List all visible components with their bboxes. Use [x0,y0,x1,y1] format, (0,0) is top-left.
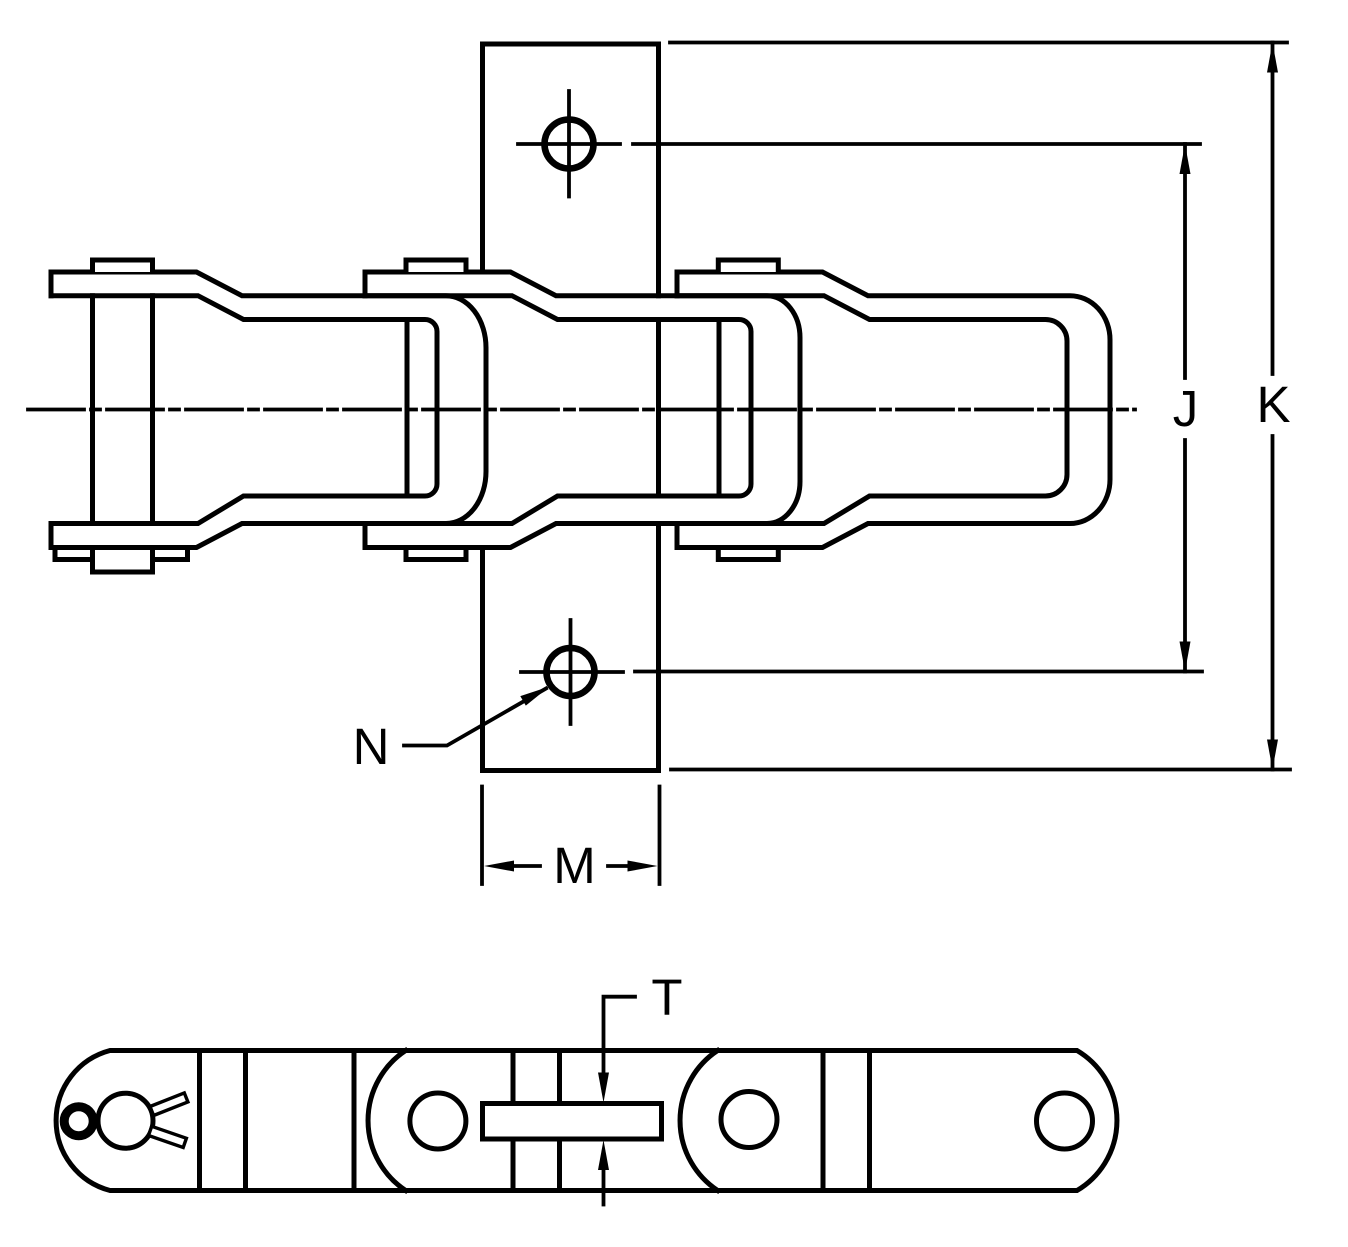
pin P2 bottom head [406,548,466,560]
M right extension line [658,787,662,885]
attachment plate bottom edge [483,768,659,773]
J arrowhead down [1180,642,1191,672]
plate hole H1 (top) [545,120,594,169]
svg-text:N: N [353,718,390,775]
link L3 outer sidebar profile (side view) [677,272,1110,548]
cotter pin upper leg [150,1093,188,1116]
pin P2 top T-head [406,260,466,272]
attachment plate left edge (upper segment) [480,44,485,272]
pin P1 left edge [90,296,95,524]
link L2 outer sidebar profile (side view) [365,272,800,548]
pin P3 bottom head [718,548,778,560]
K arrowhead down [1267,740,1278,770]
K bottom extension line [671,768,1290,772]
hole H1 horizontal centerline [518,142,620,146]
J bottom extension line [635,670,1202,674]
pin P1 bottom washer [55,548,188,560]
sidebar end edge of link L2 [352,1051,357,1191]
empty barrel hole (plan, right end) [1037,1093,1093,1149]
T leader lower (arrow up) [602,1169,606,1205]
attachment plate left edge (lower segment) [480,548,485,771]
sidebar bend line B1a [197,1051,202,1191]
M left arrowhead [484,861,514,872]
J arrowhead up [1180,144,1191,174]
K dimension line (lower segment) [1271,436,1275,770]
pin P2 visible left edge [405,320,410,497]
chain plan outline [56,1051,1117,1191]
svg-text:T: T [651,969,682,1026]
svg-text:K: K [1256,376,1290,433]
plate hole H2 (bottom) [547,648,595,696]
J dimension line (lower segment) [1183,440,1187,672]
sidebar bend line B3b [867,1051,872,1191]
pin P3 circle (plan) [721,1092,777,1148]
jaw arc of link L3 wide end [680,1051,718,1191]
pin P3 top T-head [718,260,778,272]
pin P1 bottom head [93,548,153,573]
T lower arrowhead (up) [598,1140,609,1170]
jaw arc of link L2 wide end [368,1051,406,1191]
J dimension line (upper segment) [1183,144,1187,378]
M left extension line [480,787,484,885]
pin P1 head circle (plan) [98,1093,153,1148]
link L2 inner sidebar edge + barrel end [365,296,751,524]
svg-text:M: M [553,837,595,894]
pin P3 visible left edge [717,320,722,497]
J top extension line [633,142,1200,146]
attachment plate top edge [483,42,659,47]
hole H2 horizontal centerline [521,670,623,674]
sidebar bend line B2b [557,1051,562,1191]
attachment plate right edge (lower segment) [656,524,661,771]
pin P2 circle (plan) [410,1093,466,1149]
T upper arrowhead (down) [598,1073,609,1103]
sidebar bend line B2a [511,1051,516,1191]
N leader line [404,689,546,746]
cotter pin ring [64,1107,93,1136]
centerline of chain (side view) [28,408,1135,412]
hole H2 vertical centerline [569,620,573,724]
M right arrowhead [628,861,658,872]
pin P1 top T-head [93,260,153,272]
cotter pin lower leg [149,1126,187,1147]
link L3 inner sidebar edge (closed loop end) [677,296,1067,524]
hole H1 vertical centerline [567,91,571,197]
sidebar bend line B3a [821,1051,826,1191]
attachment plate right edge (middle segment) [656,320,661,497]
K top extension line [670,41,1287,45]
link L1 inner sidebar edge + barrel end [51,296,437,524]
pin P1 right edge [150,296,155,524]
M left dimension line [508,864,540,868]
svg-text:J: J [1173,380,1199,437]
T leader upper (elbow + arrow down) [604,997,636,1073]
M right dimension line [608,864,634,868]
attachment plate (plan, edge-on strip) [483,1104,662,1140]
N arrowhead [520,687,549,706]
K dimension line (upper segment) [1271,43,1275,375]
sidebar bend line B1b [243,1051,248,1191]
link L1 outer sidebar profile (side view) [51,272,486,548]
K arrowhead up [1267,43,1278,73]
attachment plate right edge (upper segment) [656,44,661,296]
